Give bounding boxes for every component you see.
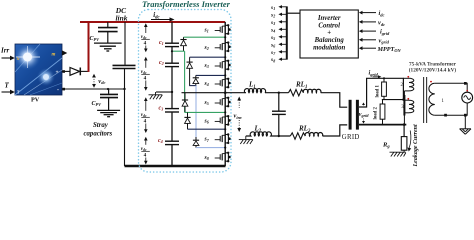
- gate signal bus: [287, 6, 300, 59]
- svg-text:Transformerless Inverter: Transformerless Inverter: [142, 0, 231, 9]
- junction node stray cap: [107, 88, 109, 90]
- green clamp wire S5-S6 junction: [185, 111, 226, 113]
- switch S8: [215, 152, 231, 163]
- svg-text:Leakage Current: Leakage Current: [413, 124, 419, 168]
- switch S2: [215, 41, 231, 52]
- svg-text:4: 4: [144, 152, 147, 158]
- clamping diode D5: [184, 112, 190, 129]
- svg-text:s1: s1: [270, 5, 275, 11]
- svg-text:s5: s5: [204, 100, 209, 106]
- wire PV+ to diode: [62, 70, 70, 73]
- svg-text:c1: c1: [159, 40, 164, 46]
- svg-text:c3: c3: [159, 105, 164, 111]
- clamp wire to output node: [182, 92, 226, 94]
- red positive dc rail: [80, 21, 225, 23]
- grid bar right: [356, 100, 359, 130]
- svg-text:+: +: [327, 30, 331, 37]
- capacitor c3: [165, 108, 179, 112]
- svg-text:4: 4: [144, 118, 147, 124]
- svg-text:s6: s6: [270, 42, 275, 48]
- svg-text:modulation: modulation: [313, 45, 345, 52]
- svg-text:Inverter: Inverter: [317, 15, 341, 22]
- inductor L2: [246, 132, 290, 136]
- clamping diode D1: [180, 37, 186, 51]
- winding 1 polarity dot: [430, 81, 432, 83]
- svg-text:Control: Control: [318, 23, 340, 30]
- DC link capacitor: [113, 22, 136, 166]
- clamping diode D3: [193, 75, 199, 85]
- svg-text:s2: s2: [270, 12, 275, 18]
- svg-text:s6: s6: [204, 118, 209, 124]
- R_g earth ground: [390, 150, 406, 156]
- i_grid wire: [359, 78, 403, 107]
- v_dc/4 label 4: [141, 137, 150, 165]
- inductor L1: [244, 89, 265, 93]
- svg-text:s8: s8: [270, 57, 275, 63]
- svg-text:Irr: Irr: [0, 47, 9, 55]
- s3 gate arrow: [278, 20, 286, 23]
- s6 gate arrow: [278, 43, 286, 46]
- svg-text:s3: s3: [270, 20, 275, 26]
- 75-kVA transformer caption: [409, 62, 457, 74]
- midpoint earth ground: [149, 92, 163, 99]
- winding 2 polarity dot: [407, 76, 409, 78]
- midpoint junction node: [171, 91, 173, 93]
- svg-text:PV: PV: [31, 97, 40, 104]
- wire L1 to RL1: [265, 92, 289, 94]
- v_dc/4 label 3: [141, 97, 150, 133]
- transformer winding 1: [429, 83, 464, 115]
- T input arrow: [2, 90, 15, 95]
- svg-text:capacitors: capacitors: [84, 131, 113, 138]
- red positive dc riser: [88, 21, 90, 72]
- switch S7: [215, 133, 231, 144]
- earth ground (filter neutral): [239, 136, 253, 144]
- s1 gate arrow: [278, 5, 286, 8]
- transformer core: [424, 77, 427, 123]
- svg-text:CPV: CPV: [90, 36, 101, 42]
- junction squares: [444, 82, 467, 117]
- load junction wire: [382, 99, 405, 101]
- ac source polarity dot: [466, 90, 468, 92]
- resistor RL2: [290, 133, 305, 139]
- v_dc measurement arrow: [92, 74, 96, 88]
- wire PV- to dc link bottom: [62, 88, 125, 91]
- svg-text:s8: s8: [204, 155, 209, 161]
- svg-text:4: 4: [144, 40, 147, 46]
- svg-text:s2: s2: [204, 45, 209, 51]
- capacitor c4: [165, 141, 179, 145]
- switch S4: [215, 78, 231, 89]
- ground (C_PV top): [94, 43, 122, 51]
- switch S1: [215, 24, 231, 35]
- switch chain bus: [224, 22, 226, 166]
- svg-text:+: +: [56, 70, 59, 76]
- svg-text:CPV: CPV: [92, 101, 103, 107]
- clamping diode D2: [187, 57, 193, 85]
- green stub to capacitor junction: [172, 50, 185, 52]
- capacitor bank bus: [171, 22, 173, 166]
- green clamp wire S1-S2 junction: [184, 36, 226, 38]
- v_dc/4 label 1: [141, 23, 150, 52]
- junction node load1 top: [383, 77, 385, 79]
- svg-text:s4: s4: [204, 81, 209, 87]
- control block text: [313, 15, 345, 52]
- transformer winding 2: [403, 78, 413, 99]
- svg-text:GRID: GRID: [342, 134, 360, 141]
- svg-text:s1: s1: [204, 28, 209, 34]
- s2 gate arrow: [278, 13, 286, 16]
- inverter output wire: [225, 92, 246, 94]
- winding 3 polarity dot: [407, 98, 409, 100]
- chain clamp junction nodes: [224, 36, 226, 149]
- wire RL2 to grid: [323, 125, 348, 136]
- junction node PV- / dc link: [123, 88, 125, 90]
- inductor RL2 coil: [305, 133, 323, 136]
- svg-text:vgrid: vgrid: [359, 112, 370, 118]
- navy clamp wire S3-S4 junction: [196, 74, 225, 76]
- load 2 resistor: [380, 100, 385, 125]
- switch S3: [215, 60, 231, 71]
- R_g drop wire: [403, 123, 406, 136]
- control input arrow i_dc: [359, 11, 376, 15]
- capacitor c1: [165, 43, 179, 47]
- ground (C_PV bottom): [97, 110, 120, 116]
- leakage current arrow: [408, 131, 412, 152]
- filter shunt capacitor: [272, 92, 286, 138]
- transformer bold tap bar: [403, 95, 405, 116]
- resistor RL1: [289, 90, 304, 96]
- svg-text:4: 4: [144, 75, 147, 81]
- capacitor c2: [165, 63, 179, 67]
- junction node i_grid/load: [402, 98, 404, 100]
- wire diode to dc bus: [81, 70, 89, 72]
- i_dc arrow: [151, 17, 175, 21]
- svg-text:m: m: [52, 53, 56, 58]
- grid bottom wire: [359, 124, 406, 126]
- blocking diode: [70, 68, 80, 76]
- load 1 resistor: [382, 78, 387, 99]
- DC link label: [115, 6, 128, 23]
- clamping diode D6: [193, 137, 199, 148]
- m output port arrow: [62, 50, 67, 55]
- svg-text:Stray: Stray: [93, 122, 109, 129]
- v_dc/4 label 2: [141, 57, 150, 91]
- navy link wire D2/D3 anodes: [189, 85, 196, 87]
- svg-text:load 2: load 2: [373, 107, 378, 120]
- capacitor C_PV bottom: [100, 89, 118, 110]
- svg-text:Ir: Ir: [17, 57, 20, 61]
- capacitor C_PV top: [98, 22, 118, 43]
- PV module block: [15, 44, 63, 95]
- i_grid arrow: [373, 75, 382, 78]
- wire RL1 to grid: [321, 93, 348, 108]
- v_inv measurement arrows: [237, 97, 241, 133]
- control input arrow v_dc: [359, 20, 376, 24]
- Irr input arrow: [2, 56, 15, 61]
- transformer winding 3: [404, 100, 413, 124]
- light blue clamp wire S7-S8 junction: [196, 147, 225, 149]
- s5 gate arrow: [278, 35, 286, 38]
- s4 gate arrow: [278, 28, 286, 31]
- s8 gate arrow: [278, 58, 286, 61]
- ac source connection wires: [465, 83, 467, 115]
- svg-text:link: link: [116, 14, 128, 23]
- midpoint ground stub: [156, 91, 172, 93]
- svg-text:s5: s5: [270, 35, 275, 41]
- svg-text:Balancing: Balancing: [314, 37, 345, 44]
- svg-text:s4: s4: [270, 27, 275, 33]
- inductor RL1 coil: [303, 89, 321, 92]
- clamping diode D4: [182, 93, 188, 113]
- control input arrow i_grid: [359, 29, 376, 33]
- svg-text:c4: c4: [158, 138, 163, 144]
- switch S6: [215, 115, 231, 126]
- ac voltage source: [462, 92, 473, 103]
- v_grid measurement ticks: [362, 103, 365, 124]
- bottom dc rail: [125, 165, 226, 168]
- svg-text:s3: s3: [204, 63, 209, 69]
- s7 gate arrow: [278, 50, 286, 53]
- inverter control block: [300, 10, 358, 58]
- navy clamp wire S6-S7 junction: [188, 128, 226, 130]
- grid bar left: [349, 100, 352, 130]
- svg-text:load 1: load 1: [375, 85, 380, 98]
- light blue clamp bus: [195, 86, 197, 140]
- resistor R_g: [401, 137, 407, 151]
- switch S5: [215, 97, 231, 108]
- svg-text:c2: c2: [159, 60, 164, 66]
- ac source ground: [460, 115, 471, 134]
- capacitor bus junction node: [171, 50, 173, 52]
- control input arrow MPPT: [359, 46, 376, 50]
- control input arrow v_grid: [359, 38, 376, 42]
- output node junction: [224, 91, 227, 94]
- navy clamp wire S2-S3 junction: [190, 56, 226, 58]
- svg-text:T: T: [5, 82, 10, 90]
- svg-text:(120V/120V/14.4 kV): (120V/120V/14.4 kV): [409, 67, 457, 74]
- transformerless inverter dashed box: [139, 10, 232, 173]
- svg-text:-: -: [57, 88, 59, 94]
- Stray capacitors label: [84, 122, 113, 138]
- green vertical clamp bus: [184, 51, 186, 112]
